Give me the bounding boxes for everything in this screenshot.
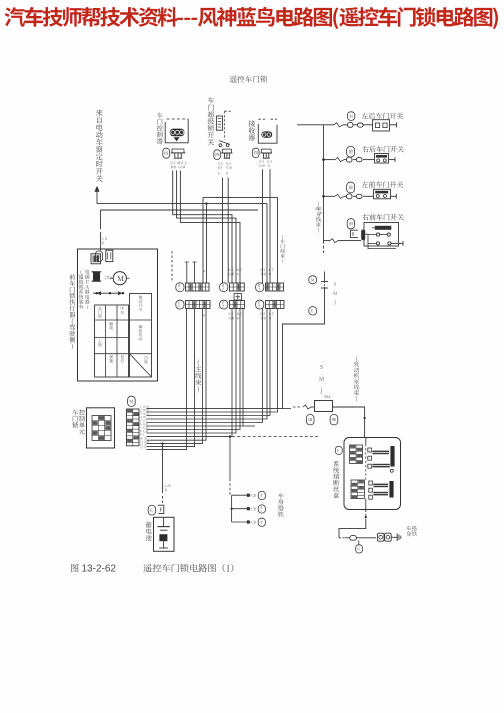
switch contacts of S2	[219, 141, 230, 145]
junction dots on bus	[322, 158, 325, 161]
connector row2 group2 strip	[230, 301, 245, 309]
connector block at actuator top	[91, 254, 101, 264]
pin labels above row1	[203, 270, 205, 272]
connector row2 group2 ref bubble	[220, 300, 228, 309]
connector bubble SMJ top	[309, 276, 317, 284]
label: left-front door switch	[362, 181, 404, 187]
wire: left-rear switch row	[297, 124, 334, 126]
wire: bus1 left drop to connector row	[203, 196, 217, 198]
wire: top horizontal bus 1	[217, 196, 278, 198]
label: battery (vertical)	[146, 522, 152, 541]
connector ref bubble below U1	[163, 148, 170, 158]
label: remote door lock header	[230, 76, 267, 83]
pin labels 0.85B under bus	[315, 208, 321, 210]
junction on timer wire	[205, 202, 207, 204]
wire: left drop to front actuator	[100, 210, 102, 229]
connector row2 group1 ref bubble	[176, 300, 184, 309]
changeover contact arrows	[93, 292, 124, 294]
pin labels under U3	[259, 160, 264, 163]
component U1: door control box	[165, 119, 188, 143]
connector ref bubble on actuator feed	[95, 251, 102, 262]
battery cell symbol	[163, 517, 165, 526]
ground terminal blocks	[377, 533, 384, 541]
actuator internal table 2	[130, 294, 152, 378]
pin labels below row2	[203, 314, 205, 316]
fusebox grid bottom-left	[351, 480, 365, 499]
label: door unlock sensor (vertical)	[157, 112, 163, 144]
label: left-rear door switch	[362, 113, 404, 119]
wire: power feed row to fusible link	[283, 408, 292, 410]
table 2 tiny text	[139, 295, 143, 311]
control unit connector strip (vertical)	[127, 409, 140, 446]
wire: fusebox to ground run	[365, 510, 367, 522]
wire: right-rear switch row	[324, 159, 336, 161]
dashed boundary right of actuator	[171, 251, 173, 282]
pin connector glyph below S2	[221, 152, 232, 154]
wire: U1 pin 2 drop	[177, 171, 236, 284]
wire: S2 pin drops	[222, 178, 224, 283]
svg-text:13-2-62: 13-2-62	[82, 564, 117, 575]
label: door lock control unit (vertical, two columns)	[72, 409, 78, 428]
left-front door switch box	[374, 189, 391, 199]
wire: bus1 right drop	[277, 197, 279, 283]
actuator internal table 1	[95, 305, 129, 377]
motor M in actuator	[113, 272, 126, 285]
junction: ground branch on fan row	[229, 435, 231, 437]
connector bubbles at C8 grounds	[258, 491, 265, 499]
fusebox grid top-left	[350, 445, 363, 464]
right-rear door switch box	[375, 154, 389, 164]
wire: door switch bus	[323, 125, 325, 241]
connector row2 group3 ref bubble	[256, 300, 264, 309]
component: front door lock actuator box	[78, 249, 158, 381]
connector bubble left-front switch	[347, 182, 355, 193]
bullet connectors left-front row	[347, 194, 353, 199]
connector bubble above unit connector	[128, 396, 136, 406]
connector row1 group2 ref bubble	[220, 283, 228, 292]
connector blob inside U3	[261, 131, 272, 137]
wire: bus tail below row4	[323, 241, 325, 253]
connector ref bubble below U3	[252, 148, 259, 157]
table 1 tiny row text	[98, 306, 102, 318]
label: inner annotation col 1 (vertical)	[79, 270, 84, 309]
connector bubble below ground oval	[358, 540, 360, 544]
connector row2 group3 strip	[266, 301, 285, 309]
C8 stub terminals and labels	[247, 494, 250, 497]
pin connector glyph below U3	[260, 152, 272, 154]
control unit pin grid	[92, 416, 111, 441]
wire: stub from unit strip to fan rows	[139, 408, 147, 410]
connector row1 group1 ref bubble	[176, 283, 184, 292]
wire: fusible link to fusebox	[333, 407, 365, 438]
component U3: receiver box (open frame)	[258, 124, 277, 143]
title: page heading	[5, 7, 498, 29]
label: body ground right (vertical 2 cols)	[406, 526, 411, 536]
wire: ground branch down from fan	[229, 437, 231, 479]
fuses bottom-right	[369, 481, 373, 485]
pin labels under U1	[171, 161, 180, 164]
wire: battery feed drop	[161, 442, 163, 444]
label (lock) tiny	[105, 275, 111, 279]
connector plug on actuator feed	[106, 250, 113, 261]
pin labels under S2	[218, 162, 223, 165]
fan pin labels	[140, 406, 149, 409]
label: door harness (vertical)	[280, 234, 285, 263]
component: door lock control unit box	[87, 408, 115, 448]
connector ref bubble below S2	[214, 150, 221, 160]
wire: horizontal bus 2	[101, 209, 259, 211]
fuses top-right	[368, 448, 372, 452]
arrow up to timer	[96, 191, 98, 204]
label: door super lock switch (vertical)	[208, 97, 215, 145]
connector bubble battery feed	[148, 505, 155, 515]
relay coil in actuator	[93, 272, 100, 281]
wire: U1 pin 1 drop	[173, 171, 232, 284]
SMJ junction symbol	[324, 272, 326, 282]
wire: timer-bus drop at junction	[206, 204, 208, 283]
label: body ground at C8 (vertical)	[278, 493, 284, 517]
wire: U1 pin 3 drop	[180, 171, 240, 284]
component: system fuse box (rounded)	[344, 438, 401, 510]
connector bubble SMJ bottom	[309, 307, 317, 315]
ground bracket with three C8 stubs	[231, 495, 233, 522]
fusible-link hook symbol at battery	[158, 505, 164, 513]
inline connector oval on ground branch	[339, 537, 345, 539]
connector row1 group3 strip	[266, 283, 284, 291]
label: receiver (vertical)	[248, 120, 255, 140]
connector bubbles under fusible link	[306, 415, 314, 425]
connector bar right-front switch	[361, 230, 365, 241]
wires: harness drop bundle from connector rows to control unit fan	[147, 408, 283, 410]
pin label 1.25B on battery feed	[165, 485, 171, 488]
wire: fan row extensions right (dashed)	[232, 436, 318, 438]
label: right-rear door switch	[362, 146, 403, 152]
connector bubble right-rear switch	[347, 146, 355, 157]
connector row1 group3 ref bubble	[256, 283, 264, 292]
ground symbol body earth	[396, 534, 398, 541]
label: main harness (vertical)	[195, 359, 201, 392]
wire: horizontal from timer arrow	[97, 203, 267, 205]
dashed linkage of S2	[224, 111, 226, 139]
label: system fuse box (vertical)	[333, 461, 339, 498]
fusible link box	[315, 401, 333, 412]
caption: figure number and title	[71, 564, 79, 572]
connector row2 group1 strip	[186, 301, 211, 309]
label: front door lock actuator driver side (vertical)	[69, 274, 75, 350]
label: inner annotation col 2 (vertical)	[85, 269, 90, 309]
pin label 1.5P on left drop	[102, 237, 106, 240]
inline diode box between rows group2	[234, 294, 242, 300]
bullet connectors right-rear row	[347, 157, 353, 162]
wire: stubs into row1 group1	[186, 262, 188, 283]
wire through fusebox (dashed)	[365, 438, 367, 445]
connector bubble right-front switch	[347, 219, 354, 229]
plug symbol right-front switch	[350, 230, 357, 237]
pin connector glyph below U1	[171, 152, 185, 154]
wire: U3 pin drops	[262, 169, 264, 283]
connector blob inside U1	[170, 129, 185, 137]
left-rear door switch box	[373, 120, 390, 131]
component S2: key cylinder switch body	[216, 116, 222, 130]
component: battery box	[154, 517, 175, 551]
wire: right-front switch row from bus corner	[324, 240, 331, 242]
label S M J (vertical)	[319, 365, 324, 394]
connector bubble on fusebox left edge	[335, 446, 342, 454]
label: from power-window timer switch (vertical)	[96, 109, 103, 181]
connector row1 group1 strip	[186, 283, 210, 291]
label 30A above fusible link	[324, 395, 331, 398]
wire: left-front switch row	[324, 195, 336, 197]
label: right-front door switch	[362, 214, 403, 220]
label S.M.J small (vertical)	[333, 282, 337, 304]
bullet connectors left-rear row	[348, 122, 354, 127]
label: engine room harness (vertical)	[354, 356, 359, 402]
wire: timer-bus right drop	[266, 204, 268, 283]
connector row1 group2 strip	[230, 283, 245, 291]
right-front door switch box	[364, 223, 399, 247]
label: body harness near bus (vertical)	[316, 202, 321, 233]
connector bubble left-rear switch	[347, 112, 354, 121]
wire: SMJ down-left to body	[283, 306, 325, 409]
